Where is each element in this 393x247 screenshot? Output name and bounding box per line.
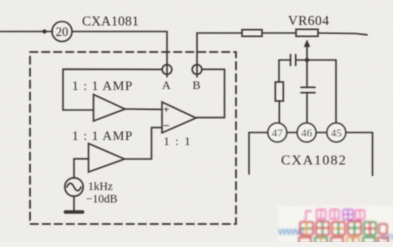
svg-text:1 : 1 AMP: 1 : 1 AMP [72, 78, 133, 93]
svg-text:46: 46 [301, 128, 313, 140]
svg-text:1kHz: 1kHz [88, 181, 113, 193]
svg-text:VR604: VR604 [288, 13, 330, 28]
svg-text:1 : 1: 1 : 1 [164, 134, 192, 148]
svg-text:1 : 1 AMP: 1 : 1 AMP [72, 128, 133, 143]
svg-text:A: A [162, 78, 171, 92]
svg-text:−10dB: −10dB [86, 194, 118, 206]
svg-text:45: 45 [331, 128, 343, 140]
svg-text:47: 47 [272, 128, 284, 140]
svg-text:B: B [193, 78, 201, 92]
svg-text:CXA1082: CXA1082 [281, 154, 347, 169]
svg-text:20: 20 [56, 25, 69, 39]
svg-text:CXA1081: CXA1081 [82, 14, 139, 29]
svg-text:+: + [163, 105, 169, 116]
svg-text:−: − [163, 121, 170, 133]
